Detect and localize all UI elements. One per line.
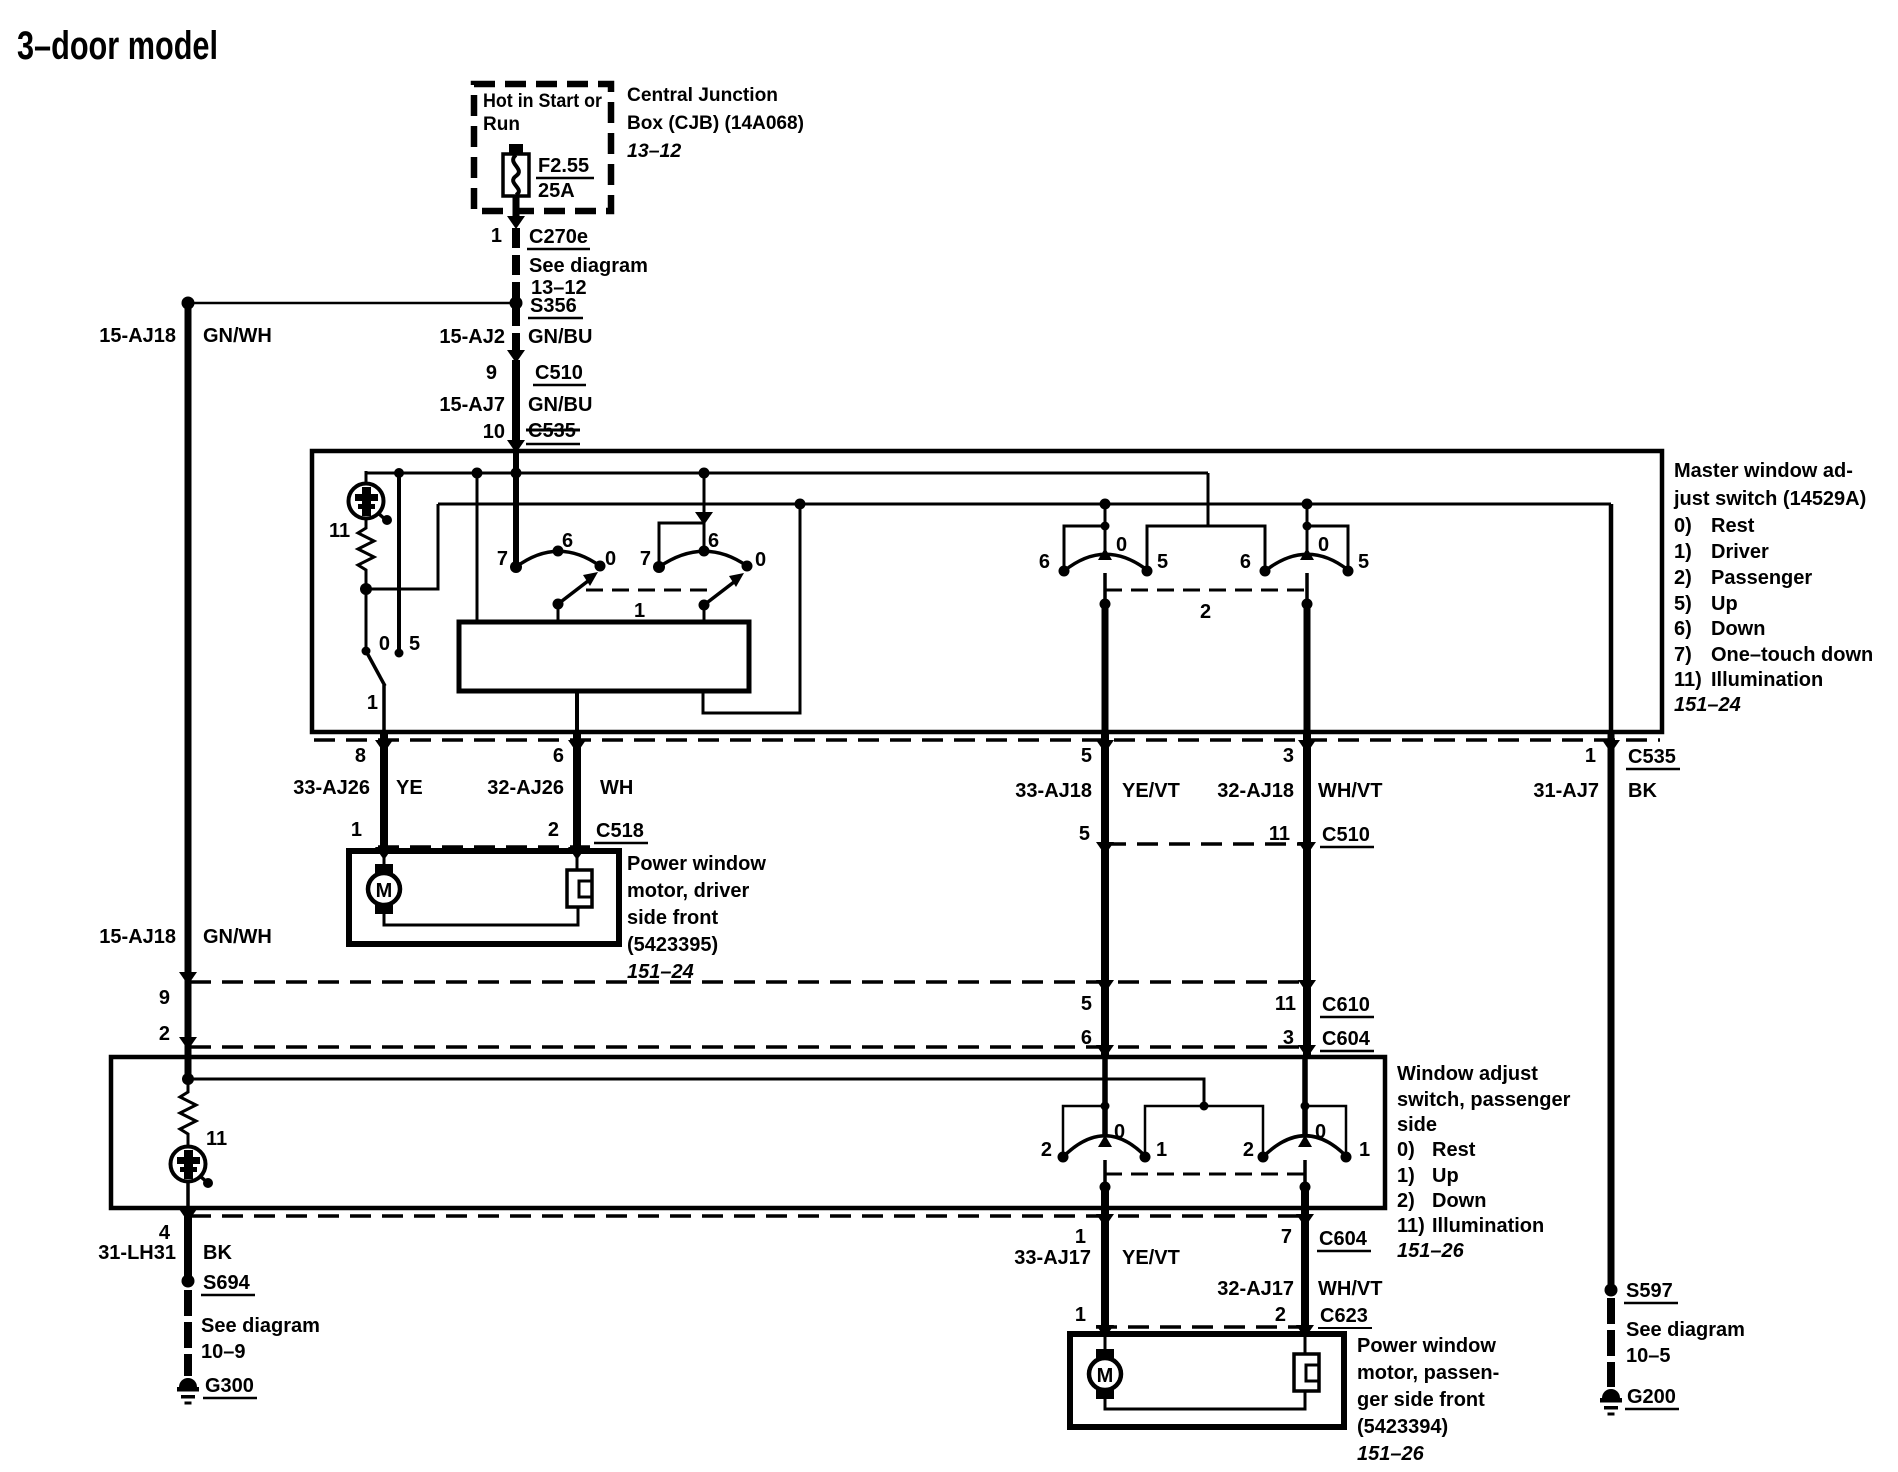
- svg-text:31-AJ7: 31-AJ7: [1533, 780, 1599, 802]
- svg-text:31-LH31: 31-LH31: [98, 1242, 176, 1264]
- connector C535 (dashed line under master switch): [314, 738, 1660, 742]
- wire 15-AJ7 GN/BU: [512, 360, 520, 442]
- svg-text:Central Junction: Central Junction: [627, 84, 778, 106]
- svg-text:1: 1: [1585, 745, 1596, 767]
- connector C610 (long dashed line): [179, 972, 197, 985]
- svg-text:0: 0: [605, 548, 616, 570]
- wire 33-AJ26 YE (pin 8 to C518 pin 1): [380, 733, 388, 849]
- node: lamp feed junction: [182, 1073, 194, 1085]
- svg-text:6: 6: [708, 530, 719, 552]
- svg-text:Rest: Rest: [1432, 1139, 1476, 1161]
- wire: riser contact 0 to bus B: [1104, 504, 1107, 553]
- svg-text:GN/BU: GN/BU: [528, 394, 592, 416]
- svg-text:Master window ad-: Master window ad-: [1674, 460, 1853, 482]
- splice S597: [1605, 1284, 1618, 1297]
- illumination lamp (11) master switch: [329, 471, 392, 542]
- svg-text:Rest: Rest: [1711, 515, 1755, 537]
- svg-text:S356: S356: [530, 295, 577, 317]
- blade of S4: [1305, 573, 1309, 604]
- switch blade (illumination switch): [366, 651, 385, 686]
- node: left branch junction: [182, 297, 195, 310]
- wire: feed from C604 pin 6 to contact 0: [1102, 1057, 1108, 1135]
- svg-text:Up: Up: [1711, 593, 1738, 615]
- svg-text:7: 7: [1281, 1226, 1292, 1248]
- wire: dashed to G200: [1607, 1298, 1615, 1387]
- svg-text:0): 0): [1674, 515, 1692, 537]
- passenger-up/down switch S3 (6/0/5): [1039, 499, 1208, 610]
- svg-text:Passenger: Passenger: [1711, 567, 1812, 589]
- wire 32-AJ18 WH/VT: [1303, 733, 1311, 1057]
- svg-text:11: 11: [1269, 823, 1290, 845]
- svg-text:WH: WH: [600, 777, 633, 799]
- svg-text:C518: C518: [596, 820, 644, 842]
- svg-text:Illumination: Illumination: [1711, 669, 1823, 691]
- wire: junction down to illumination switch contact 0: [365, 589, 368, 650]
- svg-text:See diagram: See diagram: [529, 255, 648, 277]
- power window motor driver side front box: [349, 851, 619, 944]
- svg-text:1: 1: [1359, 1139, 1370, 1161]
- svg-text:0: 0: [1318, 534, 1329, 556]
- svg-text:0: 0: [379, 633, 390, 655]
- svg-text:151–26: 151–26: [1357, 1443, 1425, 1465]
- wire: riser bus A to contact 5: [397, 473, 401, 652]
- svg-text:2: 2: [548, 819, 559, 841]
- wire: bus B (return rail inside master switch): [438, 503, 1611, 506]
- svg-text:just switch (14529A): just switch (14529A): [1673, 488, 1866, 510]
- svg-text:C604: C604: [1319, 1228, 1368, 1250]
- wire: blade pivot to box bottom (pin 8): [382, 685, 386, 733]
- svg-text:6: 6: [553, 745, 564, 767]
- svg-text:15-AJ18: 15-AJ18: [99, 325, 176, 347]
- svg-text:5: 5: [1081, 993, 1092, 1015]
- svg-text:4: 4: [159, 1222, 171, 1244]
- svg-text:1: 1: [1156, 1139, 1167, 1161]
- svg-text:2): 2): [1674, 567, 1692, 589]
- passenger switch S5 (2/0/1): [1041, 1057, 1167, 1193]
- svg-text:M: M: [376, 880, 393, 902]
- blade of S6: [1303, 1160, 1307, 1187]
- Central Junction Box dashed outline: [474, 84, 611, 211]
- svg-text:11: 11: [329, 520, 350, 542]
- master window adjust switch box (14529A): [312, 451, 1662, 732]
- svg-text:Down: Down: [1711, 618, 1765, 640]
- svg-text:G200: G200: [1627, 1386, 1676, 1408]
- svg-text:11): 11): [1397, 1215, 1425, 1237]
- wire: hook contact 6 to riser: [1064, 526, 1105, 570]
- svg-text:8: 8: [355, 745, 366, 767]
- svg-text:GN/BU: GN/BU: [528, 326, 592, 348]
- svg-text:15-AJ7: 15-AJ7: [439, 394, 505, 416]
- svg-text:C604: C604: [1322, 1028, 1371, 1050]
- wire 15-AJ18 GN/WH (left vertical): [185, 303, 192, 1079]
- svg-text:switch, passenger: switch, passenger: [1397, 1089, 1571, 1111]
- wire: C535 feed into driver switch contact 7: [513, 451, 519, 566]
- svg-text:15-AJ18: 15-AJ18: [99, 926, 176, 948]
- svg-text:6: 6: [562, 530, 573, 552]
- svg-text:1): 1): [1674, 541, 1692, 563]
- svg-text:side: side: [1397, 1114, 1437, 1136]
- svg-text:5: 5: [1157, 551, 1168, 573]
- svg-text:3: 3: [1283, 745, 1294, 767]
- label: power window motor driver side front: [627, 853, 766, 983]
- svg-text:Up: Up: [1432, 1165, 1459, 1187]
- svg-text:7): 7): [1674, 644, 1692, 666]
- passenger-up/down switch S4 (6/0/5): [1208, 499, 1369, 610]
- svg-text:Down: Down: [1432, 1190, 1486, 1212]
- svg-text:motor, driver: motor, driver: [627, 880, 749, 902]
- driver window switch S1 (7/6/0): [497, 530, 616, 622]
- wire: hook contact 2 to feed: [1063, 1106, 1105, 1156]
- one-touch module box: [459, 622, 749, 691]
- svg-text:33-AJ18: 33-AJ18: [1015, 780, 1092, 802]
- node: lamp/resistor junction: [360, 583, 372, 595]
- wire: fuse output down to C270e: [513, 196, 520, 219]
- svg-text:5: 5: [1358, 551, 1369, 573]
- svg-text:Power window: Power window: [1357, 1335, 1496, 1357]
- svg-text:151–24: 151–24: [1674, 694, 1741, 716]
- svg-text:2: 2: [1200, 601, 1211, 623]
- svg-text:15-AJ2: 15-AJ2: [439, 326, 505, 348]
- passenger switch S6 (2/0/1): [1243, 1057, 1370, 1193]
- svg-text:C623: C623: [1320, 1305, 1368, 1327]
- svg-text:2: 2: [1041, 1139, 1052, 1161]
- svg-text:10: 10: [483, 421, 505, 443]
- svg-text:11: 11: [1275, 993, 1296, 1015]
- illumination lamp (11) passenger switch: [171, 1128, 228, 1188]
- window adjust switch passenger side box: [111, 1057, 1385, 1208]
- wire 32-AJ26 WH (pin 6 to C518 pin 2): [573, 733, 581, 850]
- svg-text:C510: C510: [535, 362, 583, 384]
- circuit breaker (passenger motor): [1294, 1334, 1319, 1391]
- wire: hook contact7 to 6-riser: [659, 523, 704, 567]
- svg-text:33-AJ17: 33-AJ17: [1014, 1247, 1091, 1269]
- svg-text:BK: BK: [203, 1242, 232, 1264]
- ground G300: [177, 1378, 199, 1405]
- svg-text:2: 2: [1243, 1139, 1254, 1161]
- wire: riser bus A down to contact 6: [703, 473, 706, 552]
- wire: lamp to box bottom (pin 4): [186, 1180, 190, 1208]
- svg-text:BK: BK: [1628, 780, 1657, 802]
- wire: branch from S356 to left wire: [188, 302, 512, 305]
- svg-text:YE: YE: [396, 777, 423, 799]
- svg-text:M: M: [1097, 1365, 1114, 1387]
- driver switch S2 (7/6/0 one-touch): [640, 468, 766, 623]
- svg-text:YE/VT: YE/VT: [1122, 1247, 1180, 1269]
- svg-text:1: 1: [367, 692, 378, 714]
- wire: bus B right end down to pin 1: [1609, 504, 1614, 733]
- svg-text:32-AJ26: 32-AJ26: [487, 777, 564, 799]
- ground G200: [1600, 1389, 1622, 1416]
- svg-text:0: 0: [1114, 1121, 1125, 1143]
- wire: junction to bus B: [366, 504, 438, 589]
- svg-text:(5423394): (5423394): [1357, 1416, 1448, 1438]
- wire: bus A (supply rail inside master switch): [366, 472, 1208, 475]
- wire: module return to bus B: [703, 504, 800, 713]
- svg-text:WH/VT: WH/VT: [1318, 780, 1382, 802]
- svg-text:S694: S694: [203, 1272, 251, 1294]
- svg-text:0: 0: [755, 549, 766, 571]
- wire: S3 pivot down to pin 5: [1102, 604, 1109, 733]
- svg-text:Power window: Power window: [627, 853, 766, 875]
- svg-text:side front: side front: [627, 907, 718, 929]
- svg-text:151–24: 151–24: [627, 961, 694, 983]
- mechanical link (dashed) passenger: [1105, 1173, 1305, 1176]
- svg-text:GN/WH: GN/WH: [203, 926, 272, 948]
- wire: bus inside passenger switch: [188, 1079, 1204, 1106]
- wire: bus A drop feeding S3/S4: [1207, 473, 1210, 526]
- blade of S3: [1103, 573, 1107, 604]
- svg-text:One–touch down: One–touch down: [1711, 644, 1873, 666]
- wire: bracket feeding S5 contact 1 and S6 contact 2: [1145, 1106, 1263, 1157]
- motor M (driver): [368, 848, 578, 925]
- svg-text:WH/VT: WH/VT: [1318, 1278, 1382, 1300]
- wire: hook contact 1 to feed: [1305, 1106, 1346, 1156]
- svg-text:3–door model: 3–door model: [17, 24, 218, 68]
- wire: bus A riser to module: [476, 473, 479, 622]
- svg-text:151–26: 151–26: [1397, 1240, 1465, 1262]
- svg-text:2: 2: [159, 1023, 170, 1045]
- wire 33-AJ18 YE/VT: [1101, 733, 1109, 1057]
- wire 31-AJ7 BK (pin 1 to S597): [1608, 733, 1615, 1290]
- svg-text:Illumination: Illumination: [1432, 1215, 1544, 1237]
- contact 0 of illumination switch: [362, 647, 371, 656]
- svg-text:GN/WH: GN/WH: [203, 325, 272, 347]
- svg-text:G300: G300: [205, 1375, 254, 1397]
- wire: S4 pivot down to pin 3: [1304, 604, 1311, 733]
- wire: dashed to G300: [184, 1290, 192, 1376]
- svg-text:motor, passen-: motor, passen-: [1357, 1362, 1499, 1384]
- svg-text:25A: 25A: [538, 180, 575, 202]
- svg-text:5: 5: [409, 633, 420, 655]
- connector C604 (below passenger switch): [190, 1214, 1309, 1218]
- svg-text:C610: C610: [1322, 994, 1370, 1016]
- svg-text:5: 5: [1081, 745, 1092, 767]
- splice S356: [510, 297, 523, 310]
- svg-text:S597: S597: [1626, 1280, 1673, 1302]
- svg-text:Driver: Driver: [1711, 541, 1769, 563]
- resistor (passenger illumination): [180, 1079, 196, 1147]
- label: power window motor passenger side front: [1357, 1335, 1499, 1465]
- svg-text:33-AJ26: 33-AJ26: [293, 777, 370, 799]
- blade of S5: [1103, 1160, 1107, 1187]
- wire 31-LH31 BK (pin 4 to S694): [184, 1208, 192, 1281]
- wire: S5 pivot to pin 1: [1101, 1187, 1109, 1334]
- legend: master window adjust switch: [1673, 460, 1873, 716]
- svg-text:7: 7: [497, 548, 508, 570]
- svg-text:10–5: 10–5: [1626, 1345, 1671, 1367]
- svg-text:1: 1: [351, 819, 362, 841]
- svg-text:32-AJ18: 32-AJ18: [1217, 780, 1294, 802]
- wire 15-AJ2 GN/BU below S356: [512, 308, 520, 352]
- power window motor passenger side front box: [1070, 1334, 1344, 1427]
- svg-text:5: 5: [1079, 823, 1090, 845]
- svg-text:YE/VT: YE/VT: [1122, 780, 1180, 802]
- svg-text:(5423395): (5423395): [627, 934, 718, 956]
- svg-text:Window adjust: Window adjust: [1397, 1063, 1538, 1085]
- svg-text:13–12: 13–12: [627, 140, 681, 162]
- svg-text:5): 5): [1674, 593, 1692, 615]
- circuit breaker (driver motor): [567, 848, 592, 907]
- mechanical link 1 (dashed): [586, 589, 710, 592]
- svg-text:Box (CJB) (14A068): Box (CJB) (14A068): [627, 112, 804, 134]
- wire: hook contact 5 to bus A drop: [1147, 526, 1208, 570]
- node: feed crosses bus A: [511, 468, 522, 479]
- splice S694: [182, 1275, 195, 1288]
- svg-text:6): 6): [1674, 618, 1692, 640]
- mechanical link 2 (dashed): [1105, 589, 1307, 592]
- svg-text:C535: C535: [1628, 746, 1676, 768]
- wire: hook contact 5 to riser: [1307, 526, 1348, 570]
- svg-text:ger side front: ger side front: [1357, 1389, 1485, 1411]
- svg-text:11: 11: [206, 1128, 227, 1150]
- fuse F2.55 25A: [503, 144, 594, 202]
- svg-text:1): 1): [1397, 1165, 1415, 1187]
- svg-text:10–9: 10–9: [201, 1341, 246, 1363]
- svg-text:See diagram: See diagram: [1626, 1319, 1745, 1341]
- wire: S6 pivot to pin 7: [1301, 1187, 1309, 1334]
- motor M (passenger): [1089, 1334, 1305, 1409]
- svg-text:0): 0): [1397, 1139, 1415, 1161]
- wire: hook contact 6 to bus A drop: [1208, 526, 1265, 570]
- resistor (illumination dimmer) master switch: [358, 518, 374, 589]
- svg-text:See diagram: See diagram: [201, 1315, 320, 1337]
- svg-text:9: 9: [486, 362, 497, 384]
- svg-text:C270e: C270e: [529, 226, 588, 248]
- svg-text:1: 1: [634, 600, 645, 622]
- blade of S2: [704, 582, 734, 605]
- svg-text:Hot in Start or: Hot in Start or: [483, 91, 603, 112]
- svg-text:0: 0: [1116, 534, 1127, 556]
- svg-text:1: 1: [1075, 1226, 1086, 1248]
- svg-text:Run: Run: [483, 114, 520, 135]
- svg-text:11): 11): [1674, 669, 1702, 691]
- svg-text:7: 7: [640, 548, 651, 570]
- svg-text:F2.55: F2.55: [538, 155, 589, 177]
- svg-text:32-AJ17: 32-AJ17: [1217, 1278, 1294, 1300]
- svg-text:6: 6: [1039, 551, 1050, 573]
- svg-text:1: 1: [491, 225, 502, 247]
- svg-text:C510: C510: [1322, 824, 1370, 846]
- svg-text:2: 2: [1275, 1304, 1286, 1326]
- wire: dashed segment C270e to S356: [512, 228, 520, 300]
- wire: module output to pin 6: [575, 691, 579, 733]
- contact 5 of illumination switch: [395, 649, 404, 658]
- blade of S1: [558, 581, 588, 604]
- svg-text:9: 9: [159, 987, 170, 1009]
- svg-text:1: 1: [1075, 1304, 1086, 1326]
- svg-text:2): 2): [1397, 1190, 1415, 1212]
- svg-text:6: 6: [1240, 551, 1251, 573]
- legend: window adjust switch passenger side: [1397, 1063, 1571, 1262]
- svg-text:0: 0: [1315, 1121, 1326, 1143]
